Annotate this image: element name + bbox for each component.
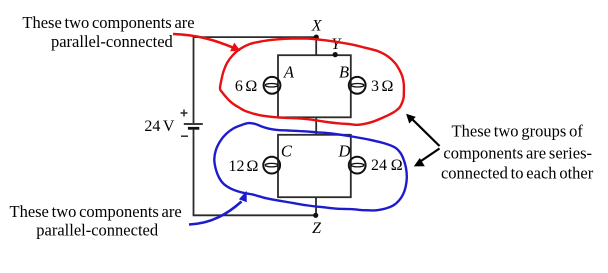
svg-text:parallel-connected: parallel-connected [51,32,174,51]
blue arrow from bottom-left note to blue ellipse [189,202,242,225]
component C (12 ohm): circle symbol [263,157,280,174]
component D (24 ohm): circle symbol [349,157,366,174]
svg-text:24 Ω: 24 Ω [371,157,403,174]
svg-text:These two groups of: These two groups of [452,122,584,141]
svg-text:B: B [339,63,349,82]
annotation text right: series note [441,122,594,183]
battery V1 24V: short thick plate [188,127,199,130]
wire: stub from X down to top rectangle [315,37,317,55]
svg-text:Z: Z [312,220,322,237]
component B (3 ohm): circle symbol [349,77,366,94]
annotation text top-left: parallel note [22,13,194,51]
wire: left vertical upper (battery + to top wire) [193,36,195,123]
wire: bottom parallel group rectangle [278,135,351,197]
wire: top parallel group rectangle [278,55,351,117]
node Y dot [333,52,338,57]
svg-text:These two components are: These two components are [22,13,194,32]
red ellipse around top parallel group [220,38,404,124]
red arrow from top-left note to red ellipse [173,34,235,48]
annotation text bottom-left: parallel note [9,202,181,240]
svg-text:3 Ω: 3 Ω [371,78,394,95]
component A (6 ohm): circle symbol [264,77,281,94]
svg-text:6 Ω: 6 Ω [235,78,258,95]
battery plus sign [181,110,188,117]
node Z dot [313,213,318,218]
svg-text:components are series-: components are series- [443,144,592,163]
svg-text:D: D [337,141,350,160]
svg-text:C: C [281,141,293,160]
node X dot [314,35,319,40]
svg-text:X: X [311,17,323,34]
wire: stub between rectangles [315,117,317,135]
svg-text:A: A [283,62,295,81]
battery V1 24V: long plate [184,123,203,125]
svg-text:24 V: 24 V [144,118,175,135]
svg-text:12 Ω: 12 Ω [229,158,259,175]
svg-text:These two components are: These two components are [9,202,181,221]
battery minus sign [181,135,188,137]
wire: top horizontal from battery to node X [194,36,317,38]
wire: left vertical lower (battery - to bottom wire) [193,129,195,216]
svg-text:Y: Y [331,36,342,53]
black arrow to red group (series note) [411,118,440,147]
wire: stub from bottom rectangle down to Z [315,197,317,215]
black arrow to blue group (series note) [421,149,440,162]
wire: bottom horizontal from battery to node Z [194,214,317,216]
blue ellipse around bottom parallel group [214,123,407,210]
svg-text:connected to each other: connected to each other [441,164,594,183]
svg-text:parallel-connected: parallel-connected [36,221,159,240]
